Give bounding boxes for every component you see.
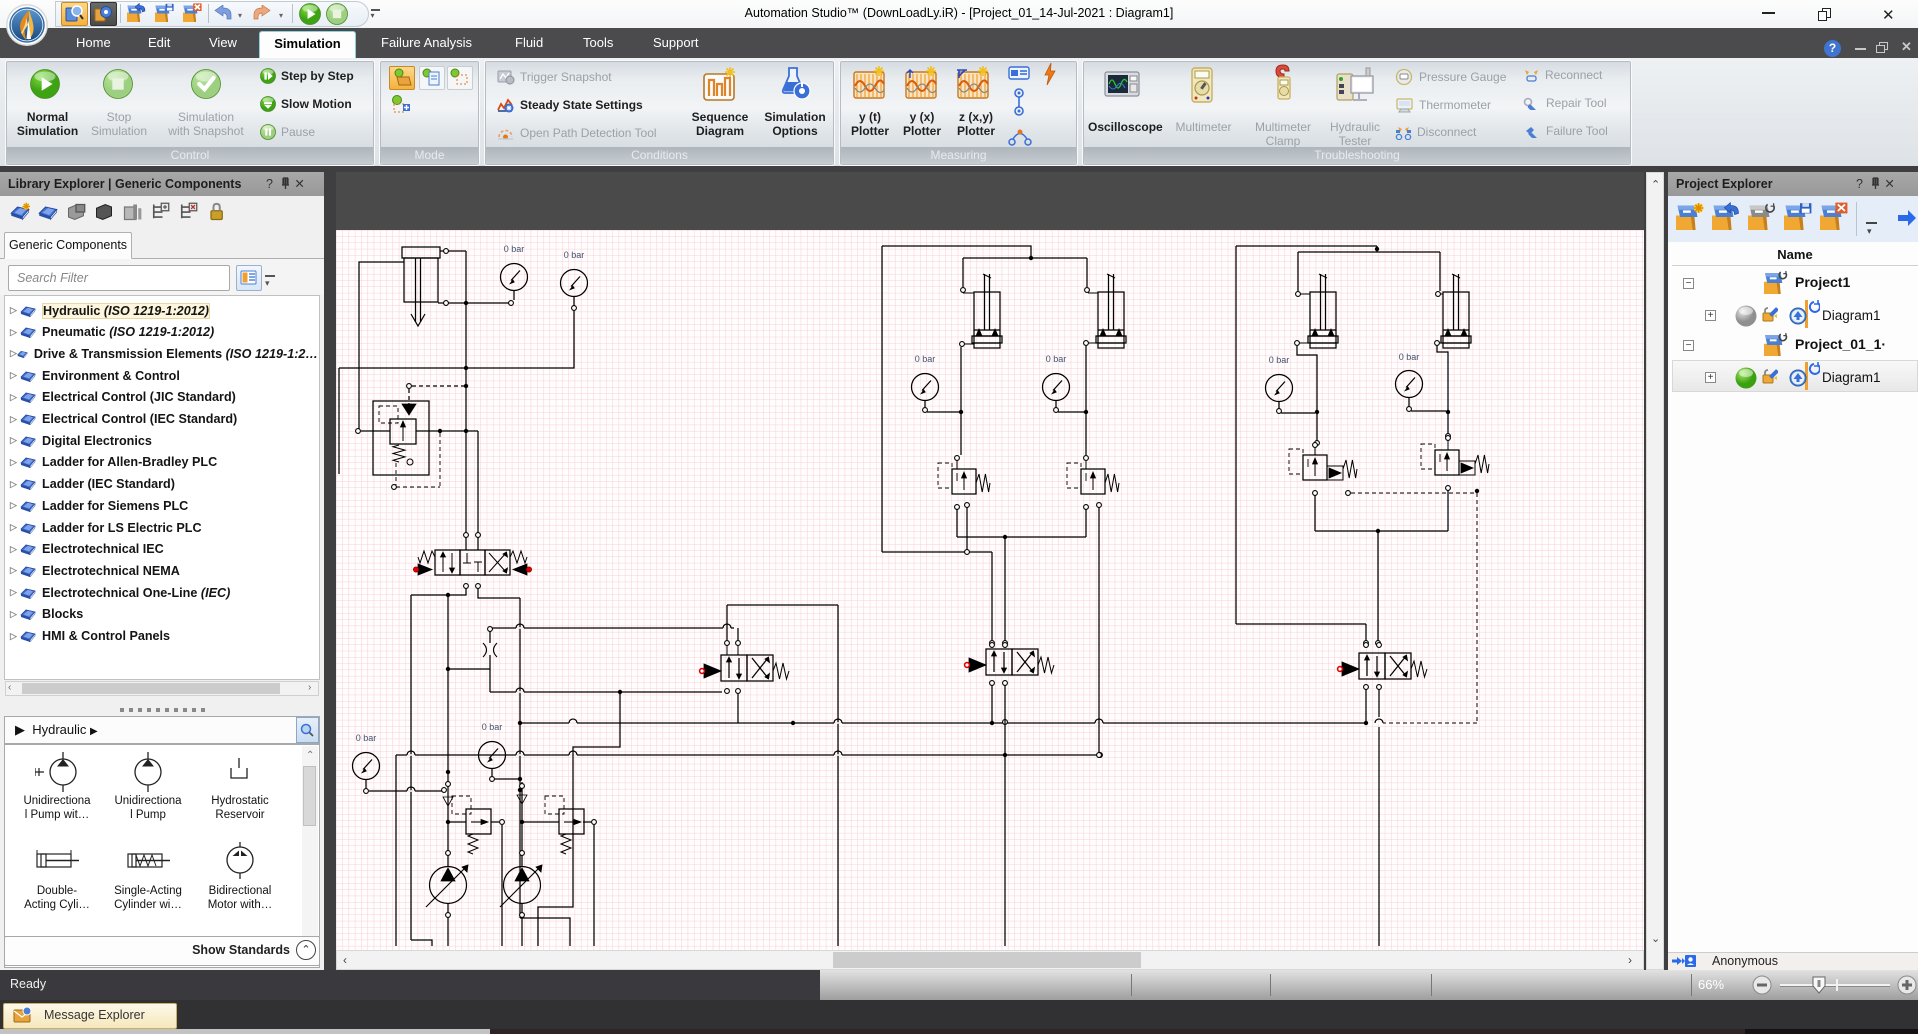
svg-text:0 bar: 0 bar	[482, 722, 503, 732]
svg-text:0 bar: 0 bar	[564, 250, 585, 260]
svg-text:0 bar: 0 bar	[1399, 352, 1420, 362]
svg-text:0 bar: 0 bar	[915, 354, 936, 364]
svg-text:0 bar: 0 bar	[1269, 355, 1290, 365]
svg-text:0 bar: 0 bar	[504, 244, 525, 254]
svg-text:0 bar: 0 bar	[356, 733, 377, 743]
svg-text:0 bar: 0 bar	[1046, 354, 1067, 364]
